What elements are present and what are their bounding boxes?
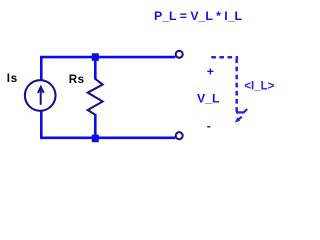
svg-text:P_L = V_L * I_L: P_L = V_L * I_L [154, 9, 243, 23]
svg-text:Is: Is [7, 72, 18, 85]
svg-text:V_L: V_L [197, 92, 220, 106]
svg-text:<I_L>: <I_L> [244, 81, 274, 93]
svg-text:+: + [207, 64, 214, 78]
svg-text:-: - [207, 119, 211, 133]
svg-text:Rs: Rs [69, 73, 85, 86]
